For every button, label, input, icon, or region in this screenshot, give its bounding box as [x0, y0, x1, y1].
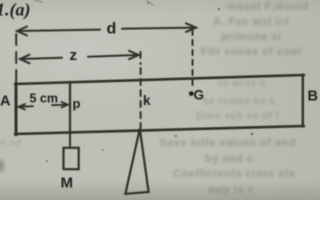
bleed-through text inside beam 3 [196, 111, 280, 122]
dashed projection line G [192, 30, 194, 90]
z dimension line right segment [88, 55, 138, 57]
string from beam to mass [69, 134, 71, 148]
beam left edge [15, 83, 18, 135]
bleed-through text row 2 [213, 16, 290, 28]
speck top right [218, 8, 220, 10]
beam bottom edge [15, 126, 304, 134]
svg-text:A: A [0, 94, 11, 110]
scratch top left [34, 0, 42, 2]
svg-text:G: G [194, 88, 205, 103]
bleed-through text inside beam 1 [218, 78, 266, 89]
knife edge triangle [125, 129, 148, 194]
bleed-through text row [173, 168, 295, 180]
speck bottom left [46, 160, 48, 162]
d arrowhead right [186, 23, 196, 32]
dashed projection line left (A end) [15, 34, 17, 82]
svg-text:5 cm: 5 cm [30, 92, 59, 106]
speck below beam left [175, 135, 177, 137]
svg-text:k: k [143, 93, 151, 108]
centre of gravity dot G [189, 91, 194, 96]
svg-text:p: p [73, 96, 81, 111]
d dimension line right segment [122, 28, 196, 29]
faint smudge left edge mid [0, 160, 4, 172]
bleed-through text row 3 [221, 31, 282, 43]
z arrowhead left [20, 55, 30, 64]
svg-text:z: z [70, 47, 78, 64]
bleed-through text row 4 [201, 46, 303, 58]
mass box M [64, 148, 79, 169]
5cm arrowhead right [62, 102, 69, 108]
beam right edge [302, 75, 304, 127]
5cm arrow right segment [52, 104, 68, 107]
svg-text:B: B [308, 89, 318, 105]
d arrowhead left [17, 27, 27, 36]
bleed-through text row [208, 184, 254, 196]
z arrowhead right [129, 51, 139, 59]
z dimension line left segment [20, 58, 62, 59]
bleed-through faint left under beam [0, 138, 22, 149]
svg-text:M: M [61, 175, 74, 192]
beam top edge [15, 75, 304, 84]
scratch top centre [146, 0, 153, 5]
dashed pivot line k [140, 52, 142, 128]
bleed-through text top right [224, 1, 309, 13]
suspension line p through beam [69, 82, 71, 134]
bleed-through text row [205, 153, 254, 165]
bleed-through text inside beam 2 [203, 96, 275, 107]
5cm arrowhead left [19, 104, 26, 110]
5cm arrow left segment [19, 105, 33, 108]
d dimension line left segment [17, 30, 100, 31]
svg-text:1.(a): 1.(a) [0, 0, 31, 21]
speck bottom mid [102, 149, 104, 151]
bleed-through text below beam right [160, 137, 296, 149]
speck top mid [147, 2, 149, 4]
svg-text:d: d [107, 21, 117, 38]
speck mid right [251, 133, 253, 135]
